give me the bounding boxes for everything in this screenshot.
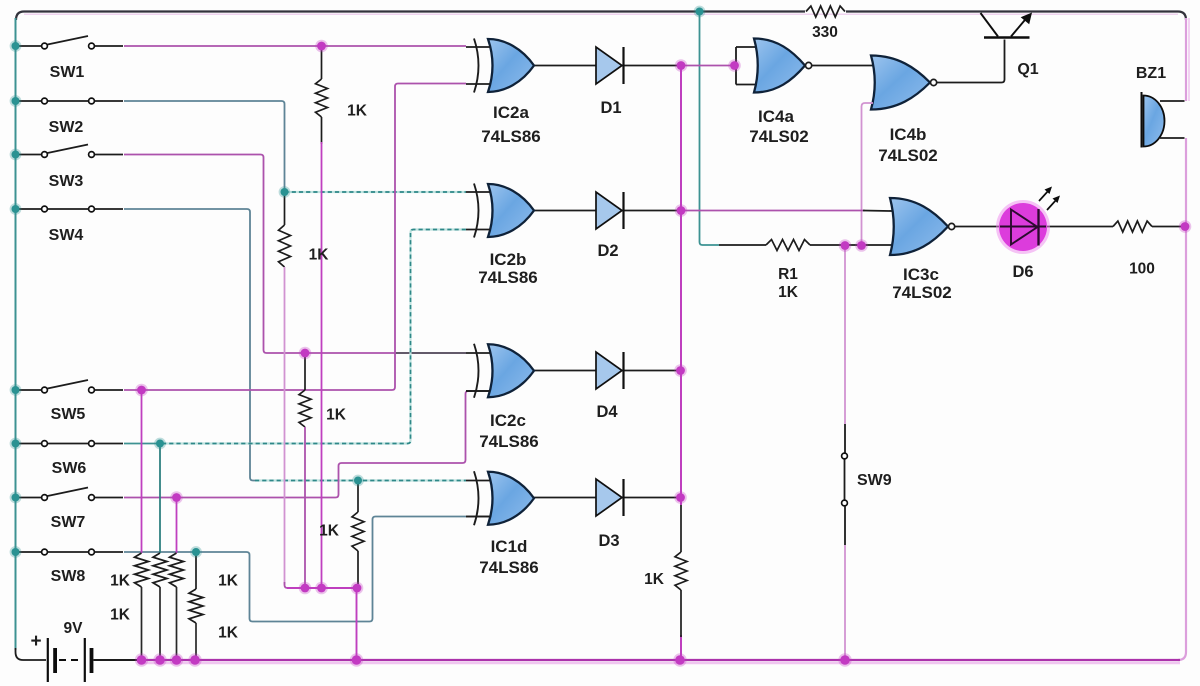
svg-text:SW7: SW7: [51, 514, 86, 531]
svg-text:IC3c: IC3c: [903, 265, 939, 284]
svg-text:SW2: SW2: [49, 119, 84, 136]
svg-text:9V: 9V: [64, 620, 84, 637]
svg-text:1K: 1K: [319, 523, 340, 540]
svg-text:IC1d: IC1d: [491, 537, 528, 556]
svg-text:1K: 1K: [347, 103, 368, 120]
svg-text:74LS86: 74LS86: [478, 268, 538, 287]
svg-text:IC2c: IC2c: [490, 411, 526, 430]
svg-text:1K: 1K: [644, 571, 665, 588]
svg-text:1K: 1K: [110, 573, 131, 590]
svg-text:SW5: SW5: [51, 406, 86, 423]
svg-text:D1: D1: [600, 99, 621, 117]
svg-text:74LS02: 74LS02: [892, 283, 952, 302]
svg-text:IC2a: IC2a: [493, 103, 529, 122]
svg-text:74LS86: 74LS86: [479, 558, 539, 577]
svg-text:SW4: SW4: [49, 227, 84, 244]
svg-text:1K: 1K: [326, 407, 347, 424]
svg-text:330: 330: [812, 24, 838, 41]
svg-text:+: +: [30, 631, 41, 652]
svg-text:R1: R1: [778, 266, 798, 283]
svg-text:IC4b: IC4b: [890, 125, 927, 144]
svg-text:BZ1: BZ1: [1136, 65, 1166, 82]
svg-text:100: 100: [1129, 261, 1155, 278]
svg-text:1K: 1K: [778, 284, 799, 301]
svg-text:SW8: SW8: [51, 568, 86, 585]
svg-text:1K: 1K: [218, 625, 239, 642]
svg-text:SW6: SW6: [52, 460, 87, 477]
svg-text:SW1: SW1: [50, 64, 85, 81]
svg-text:D4: D4: [596, 403, 618, 421]
svg-text:Q1: Q1: [1017, 61, 1038, 78]
svg-text:1K: 1K: [218, 573, 239, 590]
svg-text:IC2b: IC2b: [490, 250, 527, 269]
svg-text:1K: 1K: [309, 247, 330, 264]
svg-text:IC4a: IC4a: [758, 107, 794, 126]
svg-text:SW3: SW3: [49, 173, 84, 190]
svg-text:D2: D2: [597, 242, 618, 260]
svg-text:74LS02: 74LS02: [749, 127, 809, 146]
svg-text:D6: D6: [1012, 263, 1033, 281]
svg-text:SW9: SW9: [857, 472, 892, 489]
svg-text:74LS86: 74LS86: [481, 127, 541, 146]
svg-text:1K: 1K: [110, 607, 131, 624]
svg-text:74LS02: 74LS02: [878, 146, 938, 165]
svg-text:74LS86: 74LS86: [479, 432, 539, 451]
svg-text:D3: D3: [598, 532, 619, 550]
